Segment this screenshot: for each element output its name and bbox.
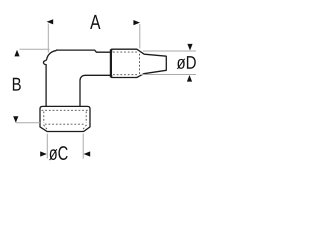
dimension C left arrow: [40, 151, 47, 156]
dimension C left extension line: [46, 134, 48, 159]
hidden dashed line, collar bottom: [113, 74, 138, 76]
label øD: [177, 56, 196, 69]
hidden dashed line, block inner left: [43, 112, 45, 124]
dimension D bottom extension line: [141, 74, 196, 76]
dimension A left extension line: [47, 24, 49, 53]
hidden dashed line, block inner bottom: [45, 123, 85, 125]
dimension A right extension line: [139, 24, 141, 49]
dimension B top extension line: [20, 48, 50, 50]
hidden dashed line, block inner right: [85, 112, 87, 124]
label øC: [49, 146, 68, 160]
spark plug cap body outline (elbow boot with nozzle taper): [43, 49, 166, 106]
hidden dashed line, block inner top: [42, 109, 89, 111]
dimension D bottom arrow: [187, 75, 192, 82]
dimension C right arrow: [84, 151, 91, 156]
dimension A left arrow: [47, 19, 54, 24]
hidden dashed line, block bottom-left chamfer: [44, 125, 48, 130]
label B: [13, 78, 21, 91]
hidden dashed line, taper base vertical: [139, 50, 141, 77]
ribbed block at boot bottom: [40, 106, 90, 131]
hidden dashed line, collar top: [113, 51, 138, 53]
dimension B top arrow: [14, 50, 19, 57]
collar junction edge (thick line at arm/collar boundary): [110, 49, 112, 77]
dimension C right extension line: [82, 134, 84, 159]
dimension A right arrow: [133, 20, 140, 25]
hidden dashed line, block bottom-right chamfer: [83, 125, 87, 130]
dimension B bottom extension line: [16, 122, 40, 124]
dimension D top extension line: [143, 50, 196, 52]
dimension B bottom arrow: [13, 116, 18, 123]
label A: [90, 15, 100, 29]
dimension D top arrow: [187, 44, 192, 51]
